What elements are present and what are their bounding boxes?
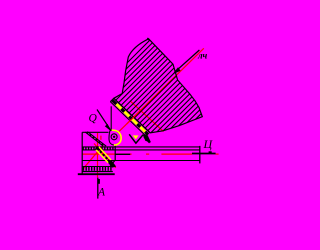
top knurl band lines (continue as bar top lines): [82, 146, 200, 148]
pivot center dot: [113, 136, 115, 138]
svg-text:Ц: Ц: [203, 137, 214, 151]
red line parallel to rim face inside wheel: [130, 101, 164, 132]
pivot plate teardrop (magenta fill masks red): [109, 130, 121, 145]
clamp wedge yellow borders: [99, 147, 111, 160]
red dash on slot: [100, 136, 102, 140]
black overdraw segment on centerline: [192, 153, 216, 155]
pivot ring: [111, 134, 117, 140]
blade root segment: [116, 153, 131, 155]
arrowhead A: [98, 179, 100, 184]
wedge start cap: [95, 147, 98, 150]
wheel outline: [114, 39, 203, 133]
clamp wedge black dashes: [97, 148, 109, 161]
red vertical centerline of block: [97, 133, 99, 178]
bar bottom line: [82, 160, 200, 162]
base line: [78, 173, 115, 175]
chamfer: [110, 160, 115, 167]
rim band borders: [114, 98, 150, 132]
leader N shaft: [175, 50, 200, 72]
top knurl ticks: [82, 147, 84, 150]
red diagonal centerline along clamp wedge: [94, 144, 116, 168]
rim band lower end cap blob: [143, 134, 151, 142]
leader Q shaft: [97, 110, 111, 131]
saw tooth V profile: [129, 134, 143, 143]
red diagonal centerline rising left: [82, 145, 103, 170]
teardrop yellow highlight arc: [112, 130, 122, 145]
bottom knurl band: [82, 166, 113, 168]
bar end tick: [199, 146, 201, 164]
arrowhead N: [172, 67, 180, 74]
bottom knurl ticks: [82, 167, 84, 171]
svg-text:А: А: [97, 186, 106, 198]
block right edge: [114, 145, 116, 161]
leader A shaft: [97, 178, 99, 199]
grinding wheel hatched body: [100, 0, 215, 215]
slot double line with hatch: [85, 132, 103, 146]
block left edge: [81, 132, 83, 174]
tooth cap stroke: [144, 137, 150, 143]
red of force line showing through band: [127, 113, 139, 125]
yellow highlight in tooth gullet: [133, 135, 139, 139]
svg-text:лч: лч: [197, 50, 208, 60]
svg-text:Q: Q: [89, 112, 98, 124]
rim band yellow dashes: [116, 104, 148, 134]
red horizontal centerline of bar: [82, 153, 131, 155]
block top edge: [82, 131, 108, 133]
arrowhead Q: [105, 124, 111, 131]
red force line N through pivot: [114, 48, 204, 136]
wedge tip blob: [108, 159, 116, 167]
apex stub: [147, 38, 149, 40]
rim band black base: [112, 100, 148, 135]
vertical construction line from rim tip to pivot: [110, 106, 112, 130]
